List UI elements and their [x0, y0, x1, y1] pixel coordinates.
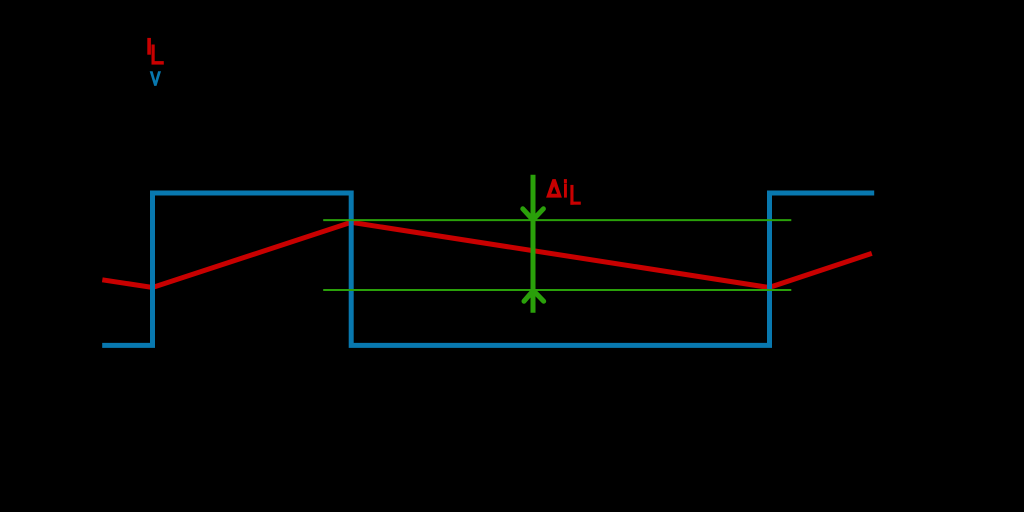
node upper ripple reference line (green) — [323, 219, 791, 221]
node down arrowhead — [523, 209, 544, 220]
node delta iL ripple label (red) — [546, 179, 581, 205]
wire green arrow vertical line — [531, 175, 536, 313]
wire red inductor current triangle wave — [102, 222, 872, 287]
node v label (blue, top-left) — [150, 71, 161, 86]
node lower ripple reference line (green) — [323, 289, 791, 291]
node up arrowhead — [524, 291, 544, 302]
wire blue voltage square wave — [102, 193, 874, 345]
node iL label (red, top-left) — [147, 38, 164, 65]
